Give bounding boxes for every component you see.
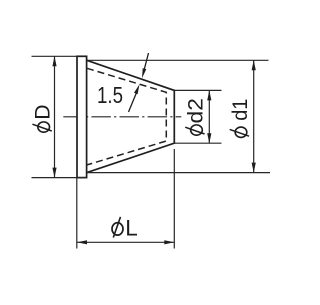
- arrow phi-L left: [77, 240, 87, 244]
- center line: [63, 116, 181, 118]
- svg-text:d1: d1: [229, 99, 252, 121]
- extension line phi-D bottom: [32, 177, 87, 179]
- arrow phi-d1 up: [252, 60, 256, 70]
- extension line phi-L left: [76, 178, 78, 249]
- dimension line phi-d1: [253, 60, 255, 172]
- svg-text:1.5: 1.5: [97, 82, 123, 108]
- label phi-D: [32, 104, 55, 132]
- arrow phi-L right: [164, 240, 174, 244]
- flange outline: [77, 56, 87, 177]
- extension line phi-d1 top: [87, 59, 269, 61]
- svg-text:d2: d2: [185, 98, 208, 123]
- cone outline: [87, 60, 175, 172]
- label phi-d2: [185, 98, 208, 135]
- arrow phi-d2 up: [207, 90, 211, 100]
- extension line phi-d2 bottom: [175, 142, 222, 144]
- label phi-d1: [229, 99, 252, 138]
- svg-text:D: D: [32, 104, 55, 119]
- arrow phi-D up: [52, 56, 56, 66]
- label phi-L: [112, 215, 138, 240]
- leader line 1.5 upper: [144, 53, 149, 72]
- svg-text:L: L: [125, 215, 138, 240]
- extension line phi-L right: [173, 149, 175, 249]
- arrow phi-d1 down: [252, 163, 256, 173]
- dimension line phi-L: [77, 241, 174, 243]
- arrow phi-d2 down: [207, 133, 211, 143]
- extension line phi-d2 top: [175, 89, 222, 91]
- leader arrow onto cone edge: [142, 68, 146, 78]
- dimension line phi-d2: [208, 90, 210, 143]
- leader arrow onto dashed bore edge: [134, 84, 140, 94]
- arrow phi-D down: [52, 168, 56, 178]
- extension line phi-D top: [32, 55, 78, 57]
- extension line phi-d1 bottom: [87, 172, 270, 174]
- leader line 1.5 lower: [129, 93, 137, 112]
- dimension line phi-D: [54, 56, 56, 177]
- hidden bore (dashed): [87, 68, 166, 165]
